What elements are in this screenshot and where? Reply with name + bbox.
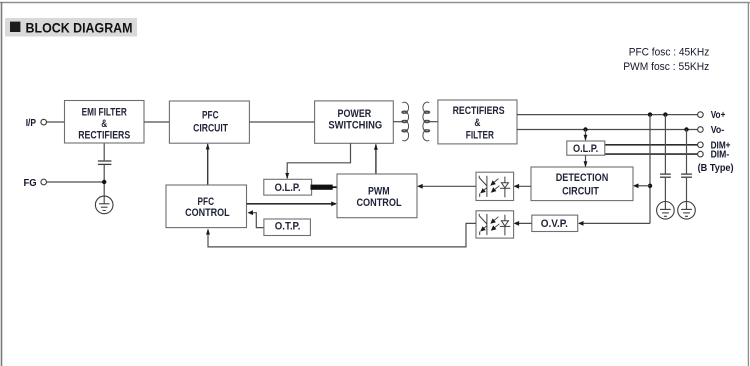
- node junction Vo- line to output capacitor C3: [684, 127, 688, 131]
- svg-text:PFC fosc : 45KHz: PFC fosc : 45KHz: [629, 46, 710, 58]
- svg-text:POWER: POWER: [338, 108, 372, 120]
- svg-text:O.V.P.: O.V.P.: [541, 218, 568, 230]
- svg-text:O.L.P.: O.L.P.: [275, 182, 301, 194]
- svg-text:RECTIFIERS: RECTIFIERS: [453, 105, 505, 117]
- wire EMI filter bottom to capacitor C1: [103, 143, 105, 160]
- svg-text:&: &: [474, 117, 480, 129]
- terminal Vo-: [698, 124, 725, 136]
- wire EMI filter to PFC circuit: [144, 121, 169, 123]
- wire into detection circuit right edge with arrow: [633, 183, 650, 188]
- svg-text:SWITCHING: SWITCHING: [328, 119, 382, 131]
- wire capacitor C2 to ground: [664, 178, 666, 210]
- wire Vo+ line down to detection level: [649, 115, 651, 224]
- terminal DIM-: [698, 149, 730, 161]
- block PFC CIRCUIT: [169, 101, 249, 143]
- block RECTIFIERS & FILTER: [438, 100, 517, 144]
- wire OTP to PFC control with arrow: [248, 210, 264, 227]
- wire power switching to transformer primary: [393, 121, 402, 123]
- capacitor C3: [681, 174, 692, 177]
- block OLP right: [567, 141, 605, 155]
- svg-text:PWM fosc : 55KHz: PWM fosc : 55KHz: [623, 61, 709, 73]
- wire PFC control up to PFC circuit with arrow: [206, 143, 210, 185]
- opto-coupler U1: [476, 172, 514, 200]
- node FG junction: [102, 180, 106, 184]
- wire Vo+ line down to capacitor C2: [664, 115, 666, 174]
- svg-text:&: &: [101, 118, 107, 130]
- wire rectifiers to Vo+ terminal: [517, 114, 698, 116]
- terminal Vo+: [698, 109, 726, 121]
- block POWER SWITCHING: [315, 101, 394, 143]
- node junction Vo- line to OLP right: [583, 127, 587, 131]
- svg-text:PFC: PFC: [198, 196, 215, 208]
- svg-text:(B Type): (B Type): [698, 162, 734, 174]
- block PWM CONTROL: [337, 174, 417, 218]
- block OTP: [264, 219, 311, 236]
- wire I/P to EMI filter: [47, 121, 65, 123]
- svg-text:DIM-: DIM-: [711, 149, 730, 161]
- wire transformer secondary to rectifiers: [429, 121, 438, 123]
- svg-text:RECTIFIERS: RECTIFIERS: [78, 130, 130, 142]
- svg-text:FG: FG: [24, 177, 37, 189]
- svg-text:CIRCUIT: CIRCUIT: [193, 122, 228, 134]
- svg-text:EMI FILTER: EMI FILTER: [82, 106, 127, 118]
- block EMI FILTER & RECTIFIERS: [65, 101, 145, 144]
- wire OVP to opto coupler 2 with arrow: [514, 221, 532, 226]
- wire Vo- line down to capacitor C3: [686, 130, 688, 174]
- wire power switching down to PWM control with arrow up: [374, 144, 378, 174]
- transformer T1 primary winding: [402, 102, 409, 141]
- terminal I/P: [26, 117, 47, 129]
- svg-text:O.T.P.: O.T.P.: [275, 221, 301, 233]
- svg-text:DETECTION: DETECTION: [556, 172, 609, 184]
- wire Vo- line down into OLP right with arrow: [584, 130, 588, 142]
- terminal FG: [24, 177, 47, 189]
- terminal DIM+: [698, 139, 731, 151]
- svg-text:O.L.P.: O.L.P.: [573, 143, 598, 155]
- opto-coupler U2: [476, 211, 514, 238]
- svg-text:Vo-: Vo-: [711, 124, 725, 136]
- block OVP: [532, 215, 578, 231]
- ground earth symbol below C2: [657, 202, 675, 220]
- wire OLP right down into detection circuit with arrow: [584, 155, 588, 167]
- node junction Vo+ line to detection branch: [648, 112, 652, 116]
- wire PFC circuit to power switching: [249, 121, 314, 123]
- wire FG to junction: [47, 181, 105, 183]
- wire PFC control to PWM control with arrow: [247, 201, 337, 206]
- node junction Vo+ line to output capacitor C2: [663, 112, 667, 116]
- wire detection circuit to opto coupler 1 with arrow: [514, 184, 531, 189]
- wire opto coupler 2 feedback to PFC control with arrow: [206, 223, 476, 247]
- ground earth symbol at FG: [95, 196, 113, 214]
- section header: BLOCK DIAGRAM: [5, 18, 137, 37]
- capacitor C2: [660, 174, 671, 177]
- block PFC CONTROL: [166, 185, 247, 228]
- wire OLP right box to DIM+ terminal: [605, 144, 698, 146]
- svg-text:I/P: I/P: [26, 117, 36, 129]
- thick bus OLP middle to PWM control: [311, 185, 333, 190]
- wire opto coupler 1 to PWM control with arrow: [417, 184, 476, 189]
- svg-text:CIRCUIT: CIRCUIT: [562, 186, 599, 198]
- wire rectifiers to Vo- terminal: [517, 129, 698, 131]
- wire capacitor C3 to ground: [686, 178, 688, 210]
- ground earth symbol below C3: [678, 202, 696, 220]
- svg-text:CONTROL: CONTROL: [356, 197, 401, 209]
- svg-text:CONTROL: CONTROL: [185, 207, 230, 219]
- block DETECTION CIRCUIT: [531, 167, 633, 201]
- wire power switching down to OLP middle with arrow: [285, 143, 350, 179]
- wire OLP right box to DIM- terminal: [605, 153, 698, 155]
- block OLP middle: [264, 179, 312, 195]
- svg-text:PFC: PFC: [202, 109, 219, 121]
- wire down to OVP right edge with arrow: [578, 221, 650, 226]
- capacitor C1: [98, 161, 112, 164]
- svg-text:BLOCK DIAGRAM: BLOCK DIAGRAM: [26, 21, 133, 37]
- svg-text:FILTER: FILTER: [466, 130, 494, 142]
- transformer T1 secondary winding: [423, 102, 430, 141]
- svg-text:Vo+: Vo+: [711, 109, 726, 121]
- node junction detection branch: [648, 184, 652, 188]
- wire capacitor C1 to FG ground: [103, 165, 105, 204]
